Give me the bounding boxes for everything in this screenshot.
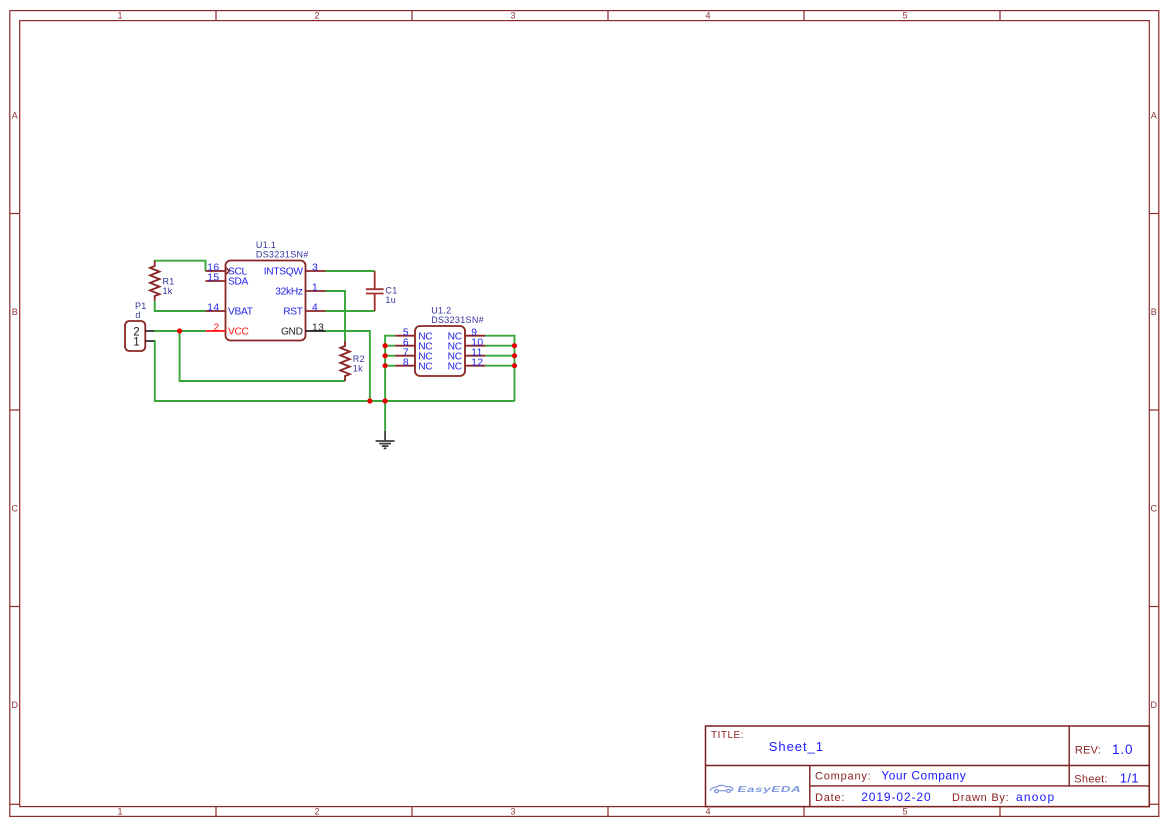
svg-text:1u: 1u bbox=[385, 295, 396, 305]
connector P1 pin 2 stub bbox=[145, 330, 154, 332]
U1.2 pin 10 number bbox=[471, 337, 483, 348]
U1.1 pin name SDA bbox=[228, 277, 249, 288]
svg-text:32kHz: 32kHz bbox=[275, 287, 303, 298]
frame row letters right bbox=[1151, 111, 1158, 711]
EasyEDA logo text bbox=[738, 785, 802, 794]
svg-text:3: 3 bbox=[312, 263, 318, 274]
capacitor C1 designator bbox=[385, 286, 397, 296]
IC U1.1 part number DS3231SN# bbox=[256, 250, 309, 260]
U1.1 pin 14 line bbox=[206, 310, 226, 312]
U1.1 pin 16 number bbox=[207, 263, 219, 274]
svg-text:12: 12 bbox=[471, 357, 483, 368]
U1.1 pin name RST bbox=[283, 307, 303, 318]
REV value 1.0 bbox=[1112, 742, 1133, 757]
title block vertical before REV column bbox=[1068, 726, 1070, 786]
svg-text:INTSQW: INTSQW bbox=[264, 267, 304, 278]
IC U1.2 body bbox=[415, 326, 465, 376]
svg-text:Company:: Company: bbox=[815, 771, 872, 783]
svg-text:SDA: SDA bbox=[228, 277, 249, 288]
U1.2 pin 11 number bbox=[471, 347, 483, 358]
svg-text:1.0: 1.0 bbox=[1112, 742, 1133, 757]
U1.2 pin 11 line bbox=[465, 355, 485, 357]
connector P1 pin 1 label bbox=[133, 337, 139, 349]
svg-text:A: A bbox=[1151, 111, 1157, 121]
svg-text:3: 3 bbox=[510, 807, 515, 817]
svg-text:C: C bbox=[11, 504, 18, 514]
svg-text:TITLE:: TITLE: bbox=[711, 730, 744, 741]
svg-text:1: 1 bbox=[117, 11, 122, 21]
Company value Your Company bbox=[881, 769, 966, 783]
U1.1 pin 16 line bbox=[206, 270, 226, 272]
svg-text:14: 14 bbox=[207, 303, 219, 314]
title block divider under title row bbox=[706, 765, 1150, 767]
svg-text:VCC: VCC bbox=[228, 327, 249, 338]
resistor R2 value 1k bbox=[353, 363, 363, 373]
svg-text:2: 2 bbox=[213, 323, 219, 334]
svg-text:2: 2 bbox=[314, 11, 319, 21]
resistor R2 bbox=[340, 341, 350, 381]
wire GND pin13 down to bottom bus bbox=[326, 331, 370, 401]
wire 32kHz pin1 to R2 top bbox=[326, 291, 346, 341]
wire U1.2 right pin bus bbox=[485, 336, 514, 401]
frame column numbers bottom bbox=[117, 807, 907, 817]
connector P1 pin 1 stub bbox=[145, 340, 154, 342]
svg-text:8: 8 bbox=[403, 357, 409, 368]
U1.1 pin 2 line (VCC, red) bbox=[206, 330, 226, 332]
svg-text:4: 4 bbox=[705, 11, 710, 21]
U1.2 pin 12 number bbox=[471, 357, 483, 368]
junction dot GND bus at pin13 drop bbox=[367, 398, 372, 403]
junction dot GND bus at ground stem bbox=[383, 398, 388, 403]
U1.2 pin 7 line bbox=[395, 355, 415, 357]
U1.1 pin name GND bbox=[281, 327, 303, 338]
wire net VCC vertical to R2 bottom bbox=[180, 331, 345, 381]
U1.2 pin names NC right bbox=[448, 331, 462, 372]
U1.2 pin 6 line bbox=[395, 345, 415, 347]
junction dot U1.2 pin6 bbox=[383, 343, 388, 348]
Sheet label bbox=[1074, 774, 1108, 786]
junction dot U1.2 pin10 bbox=[512, 343, 517, 348]
IC U1.2 part number DS3231SN# bbox=[431, 315, 484, 325]
svg-text:1: 1 bbox=[117, 807, 122, 817]
U1.1 pin 3 line bbox=[306, 270, 326, 272]
U1.1 pin 14 number bbox=[207, 303, 219, 314]
wire P1 pin1 down to bottom bus bbox=[154, 341, 515, 401]
U1.1 pin 3 number bbox=[312, 263, 318, 274]
IC U1.1 designator bbox=[256, 240, 276, 250]
frame row ticks right bbox=[1149, 214, 1159, 805]
junction dot U1.2 pin7 bbox=[383, 353, 388, 358]
U1.1 pin 13 number bbox=[312, 323, 324, 334]
Sheet value 1/1 bbox=[1120, 771, 1139, 786]
ground symbol bbox=[376, 431, 395, 448]
Date label bbox=[815, 792, 845, 804]
svg-text:5: 5 bbox=[902, 11, 907, 21]
svg-text:1: 1 bbox=[133, 337, 139, 349]
Company label bbox=[815, 771, 872, 783]
wire U1.2 left pin bus bbox=[385, 336, 395, 401]
svg-text:DS3231SN#: DS3231SN# bbox=[431, 315, 484, 325]
svg-text:Sheet:: Sheet: bbox=[1074, 774, 1108, 786]
svg-text:NC: NC bbox=[448, 361, 462, 372]
svg-text:13: 13 bbox=[312, 323, 324, 334]
svg-text:Sheet_1: Sheet_1 bbox=[769, 739, 824, 754]
Drawn By label bbox=[952, 792, 1010, 804]
IC U1.1 body bbox=[226, 261, 306, 341]
wire INTSQW pin3 to C1 top bbox=[326, 270, 375, 272]
title value Sheet_1 bbox=[769, 739, 824, 754]
U1.1 pin name VCC bbox=[228, 327, 249, 338]
REV label bbox=[1075, 745, 1101, 757]
resistor R2 designator bbox=[353, 354, 365, 364]
wire net SCL: R1 top to U1.1 pin 16 bbox=[155, 261, 206, 271]
U1.1 pin 15 number bbox=[207, 273, 219, 284]
U1.1 pin 2 number bbox=[213, 323, 219, 334]
frame row ticks left bbox=[10, 214, 20, 805]
IC U1.2 designator bbox=[431, 306, 451, 316]
U1.2 pin 7 number bbox=[403, 347, 409, 358]
svg-text:B: B bbox=[1151, 307, 1157, 317]
U1.1 pin 1 number bbox=[312, 283, 318, 294]
title label TITLE: bbox=[711, 730, 744, 741]
frame column numbers top bbox=[117, 11, 907, 21]
svg-text:1: 1 bbox=[312, 283, 318, 294]
connector P1 designator bbox=[135, 301, 147, 311]
svg-text:D: D bbox=[11, 700, 18, 710]
svg-text:GND: GND bbox=[281, 327, 303, 338]
connector P1 pin 2 label bbox=[133, 327, 139, 339]
frame column ticks bottom bbox=[216, 807, 1000, 817]
U1.1 pin name SCL bbox=[228, 267, 248, 278]
frame column ticks top bbox=[216, 11, 1000, 21]
svg-text:D: D bbox=[1151, 700, 1158, 710]
resistor R1 designator bbox=[163, 276, 175, 286]
svg-text:1k: 1k bbox=[353, 363, 363, 373]
wire ground stem bbox=[384, 401, 386, 431]
U1.2 pin 12 line bbox=[465, 365, 485, 367]
wire RST pin4 to C1 bottom bbox=[326, 310, 375, 312]
EasyEDA logo car icon bbox=[710, 785, 733, 792]
svg-text:B: B bbox=[12, 307, 18, 317]
svg-text:1/1: 1/1 bbox=[1120, 771, 1139, 786]
U1.2 pin 8 line bbox=[395, 365, 415, 367]
U1.2 pin 10 line bbox=[465, 345, 485, 347]
svg-text:3: 3 bbox=[510, 11, 515, 21]
junction dot U1.2 pin11 bbox=[512, 353, 517, 358]
svg-text:NC: NC bbox=[418, 361, 432, 372]
svg-text:1k: 1k bbox=[163, 286, 173, 296]
svg-text:4: 4 bbox=[312, 303, 318, 314]
svg-text:Drawn By:: Drawn By: bbox=[952, 792, 1010, 804]
svg-text:15: 15 bbox=[207, 273, 219, 284]
U1.1 pin 4 line bbox=[306, 310, 326, 312]
Date value 2019-02-20 bbox=[861, 790, 931, 804]
svg-text:d: d bbox=[135, 310, 140, 320]
svg-text:A: A bbox=[12, 111, 18, 121]
connector P1 body bbox=[125, 321, 145, 351]
svg-text:C1: C1 bbox=[385, 286, 397, 296]
svg-text:RST: RST bbox=[283, 307, 303, 318]
wire net VCC: P1 pin2 to U1.1 pin 2 bbox=[154, 330, 206, 332]
U1.2 pin 6 number bbox=[403, 337, 409, 348]
U1.2 pin 5 number bbox=[403, 327, 409, 338]
svg-text:2: 2 bbox=[314, 807, 319, 817]
U1.1 pin name INTSQW bbox=[264, 267, 304, 278]
Drawn By value anoop bbox=[1016, 790, 1055, 804]
resistor R1 bbox=[150, 261, 160, 301]
svg-text:VBAT: VBAT bbox=[228, 307, 253, 318]
U1.2 pin names NC left bbox=[418, 331, 432, 372]
capacitor C1 bbox=[366, 271, 384, 311]
svg-text:EasyEDA: EasyEDA bbox=[738, 785, 802, 794]
U1.1 pin name 32kHz bbox=[275, 287, 303, 298]
svg-text:2019-02-20: 2019-02-20 bbox=[861, 790, 931, 804]
U1.2 pin 9 line bbox=[465, 335, 485, 337]
U1.1 pin 4 number bbox=[312, 303, 318, 314]
svg-text:5: 5 bbox=[902, 807, 907, 817]
U1.2 pin 9 number bbox=[471, 327, 477, 338]
U1.1 pin 15 line bbox=[206, 280, 226, 282]
svg-text:4: 4 bbox=[705, 807, 710, 817]
title block divider company/date bbox=[810, 785, 1150, 787]
junction dot VCC net bbox=[177, 328, 182, 333]
svg-text:DS3231SN#: DS3231SN# bbox=[256, 250, 309, 260]
svg-text:anoop: anoop bbox=[1016, 790, 1055, 804]
title block outline bbox=[706, 726, 1150, 807]
connector P1 value d bbox=[135, 310, 140, 320]
capacitor C1 value 1u bbox=[385, 295, 396, 305]
svg-text:Your Company: Your Company bbox=[881, 769, 966, 783]
svg-text:C: C bbox=[1151, 504, 1158, 514]
U1.2 pin 5 line bbox=[395, 335, 415, 337]
junction dot U1.2 pin8 bbox=[383, 363, 388, 368]
U1.1 pin 1 line bbox=[306, 290, 326, 292]
U1.1 pin 13 line (GND, black) bbox=[306, 330, 326, 332]
U1.1 pin name VBAT bbox=[228, 307, 253, 318]
resistor R1 value 1k bbox=[163, 286, 173, 296]
title block vertical logo/company bbox=[809, 766, 811, 807]
svg-text:REV:: REV: bbox=[1075, 745, 1101, 757]
junction dot U1.2 pin12 bbox=[512, 363, 517, 368]
wire net VBAT: R1 bottom to U1.1 pin 14 bbox=[155, 301, 206, 311]
U1.1 pin 16 clock chevron bbox=[226, 268, 230, 275]
frame row letters left bbox=[11, 111, 18, 711]
U1.2 pin 8 number bbox=[403, 357, 409, 368]
svg-text:Date:: Date: bbox=[815, 792, 845, 804]
